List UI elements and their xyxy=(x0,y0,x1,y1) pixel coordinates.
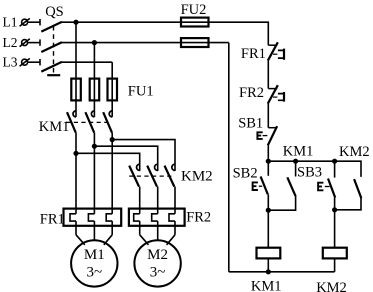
wire coil KM2 to bottom rail xyxy=(334,258,336,271)
svg-text:SB1: SB1 xyxy=(238,115,263,131)
FR2 heater element 3 xyxy=(169,214,175,221)
terminal L3 xyxy=(20,58,40,66)
pushbutton SB1 NC xyxy=(257,126,277,145)
svg-text:M1: M1 xyxy=(84,247,105,263)
svg-text:KM1: KM1 xyxy=(283,144,314,160)
svg-text:L2: L2 xyxy=(3,35,18,50)
wire phase A contact to FR1 xyxy=(75,133,77,214)
wire phase B down to FU1 xyxy=(93,43,95,117)
node tap A xyxy=(73,151,78,156)
fuse FU2 upper xyxy=(181,18,209,27)
svg-text:L3: L3 xyxy=(3,55,18,70)
wire L1 row to FU2 and corner down xyxy=(61,22,268,45)
wire tap A to KM2 xyxy=(76,153,140,171)
fuse FU2 lower xyxy=(181,38,209,47)
contactor KM2 main contact pole 1 xyxy=(129,164,140,186)
motor M1 xyxy=(71,240,117,286)
coil KM1 xyxy=(257,248,281,259)
contact FR2 NC (control) xyxy=(268,85,284,103)
FR1 heater element 1 xyxy=(70,214,76,221)
wire phase C contact to FR1 xyxy=(111,133,113,214)
node KM1 branch join xyxy=(266,208,271,213)
node SB3 tap xyxy=(332,159,337,164)
thermal relay FR2 box xyxy=(129,209,185,226)
svg-text:L1: L1 xyxy=(3,15,18,30)
KM1 linkage dashed xyxy=(66,121,110,123)
motor M2 xyxy=(134,240,180,286)
node on L2 at phase B xyxy=(92,40,97,45)
fuse FU1 pole 1 xyxy=(71,79,81,101)
wire phase A down to FU1 xyxy=(75,22,77,117)
wire tap C to KM2 xyxy=(112,140,175,171)
wire SB3 bottom to node xyxy=(334,198,336,248)
FR2 heater element 2 xyxy=(152,214,158,221)
KM2 linkage dashed xyxy=(129,175,174,177)
terminal L1 xyxy=(20,18,40,26)
fuse FU1 pole 2 xyxy=(90,79,100,101)
FR2 heater element 1 xyxy=(134,214,140,221)
svg-text:3~: 3~ xyxy=(150,264,166,280)
wire L3 row xyxy=(61,61,112,63)
svg-text:KM2: KM2 xyxy=(339,144,370,160)
wire between FR1 and FR2 contacts xyxy=(267,61,269,89)
svg-text:KM2: KM2 xyxy=(181,168,213,184)
wire KM2 pole2 to FR2 xyxy=(157,187,159,214)
svg-text:SB3: SB3 xyxy=(297,164,322,180)
wire coil KM1 to bottom rail xyxy=(267,258,269,271)
node KM1 aux tap xyxy=(293,159,298,164)
svg-text:QS: QS xyxy=(45,4,64,20)
fuse FU1 pole 3 xyxy=(108,79,118,101)
wire L2 row to FU2 lower fuse and left rail corner xyxy=(61,42,229,44)
svg-text:FR1: FR1 xyxy=(241,46,266,62)
wire FR1 to motor M1 leads xyxy=(76,221,112,245)
svg-text:FR2: FR2 xyxy=(239,85,264,101)
svg-text:FR1: FR1 xyxy=(40,212,65,228)
wire SB1 to split node xyxy=(267,145,269,161)
node KM2 branch join xyxy=(332,207,337,212)
wire tap B to KM2 xyxy=(94,146,157,171)
thermal relay FR1 box xyxy=(64,209,122,226)
wire left control rail xyxy=(228,43,230,272)
contact KM1 aux NO xyxy=(268,161,295,210)
wire FR2 to motor M2 leads xyxy=(140,221,175,245)
contactor KM1 main contact pole 2 xyxy=(85,111,94,133)
terminal L2 xyxy=(20,39,40,47)
svg-text:KM1: KM1 xyxy=(39,119,70,135)
FR1 heater element 3 xyxy=(106,214,112,221)
coil KM2 xyxy=(323,248,347,259)
FR1 heater element 2 xyxy=(88,214,94,221)
svg-text:KM1: KM1 xyxy=(251,279,282,292)
contactor KM2 main contact pole 2 xyxy=(147,164,158,186)
node tap B xyxy=(92,144,97,149)
contact FR1 NC (control) xyxy=(268,42,284,60)
wire SB2 bottom to node xyxy=(267,194,269,247)
svg-text:KM2: KM2 xyxy=(316,280,347,292)
contact KM2 aux NO xyxy=(335,179,362,210)
wire bottom control rail xyxy=(229,271,335,273)
contactor KM1 main contact pole 1 xyxy=(67,111,76,133)
node tap C xyxy=(110,137,115,142)
svg-text:FR2: FR2 xyxy=(186,210,211,226)
wire phase B contact to FR1 xyxy=(93,133,95,214)
svg-text:3~: 3~ xyxy=(86,264,102,280)
wire KM2 pole1 to FR2 xyxy=(139,187,141,214)
wire control crossbar xyxy=(268,161,361,177)
pushbutton SB2 NO xyxy=(253,161,269,194)
svg-text:SB2: SB2 xyxy=(233,166,258,182)
pushbutton SB3 NO xyxy=(318,161,335,197)
wire between FR2 and SB1 xyxy=(267,104,269,128)
svg-text:FU1: FU1 xyxy=(128,84,154,100)
node split left xyxy=(266,159,271,164)
wire KM2 pole3 to FR2 xyxy=(174,187,176,214)
wire phase C down to FU1 xyxy=(111,62,113,117)
contactor KM1 main contact pole 3 xyxy=(103,111,112,133)
svg-text:FU2: FU2 xyxy=(181,2,207,18)
contactor KM2 main contact pole 3 xyxy=(165,164,176,186)
switch QS xyxy=(41,22,62,75)
svg-text:M2: M2 xyxy=(147,247,168,263)
node on L1 at phase A xyxy=(73,20,78,25)
node bottom rail KM1 xyxy=(266,269,271,274)
